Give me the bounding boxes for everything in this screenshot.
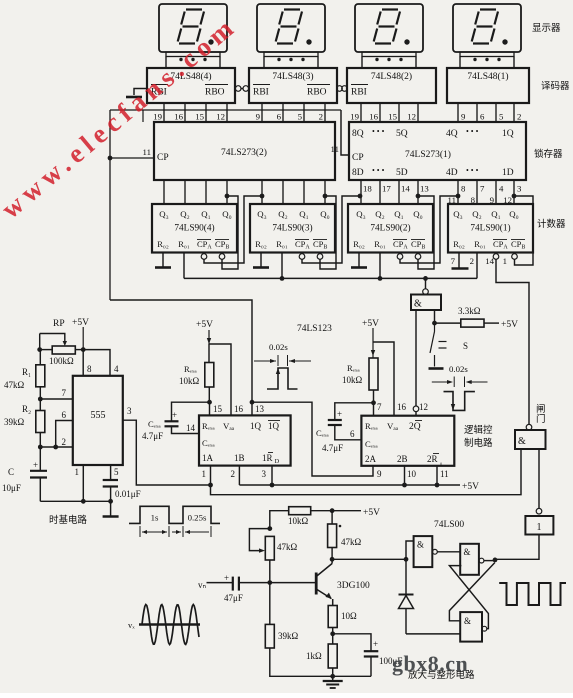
svg-text:Q₃: Q₃ bbox=[159, 209, 168, 219]
svg-text:74LS48(3): 74LS48(3) bbox=[272, 71, 313, 82]
svg-text:门: 门 bbox=[536, 413, 546, 425]
svg-text:制电路: 制电路 bbox=[464, 437, 493, 449]
svg-text:13: 13 bbox=[255, 404, 265, 414]
svg-text:RBO: RBO bbox=[307, 88, 327, 98]
svg-text:+5V: +5V bbox=[363, 508, 380, 518]
svg-text:12: 12 bbox=[407, 112, 416, 122]
ground pins 7,2 of 74LS90(1) bbox=[458, 253, 460, 269]
svg-text:• • •: • • • bbox=[372, 166, 385, 175]
wire CPA(3) from Q3(2) bbox=[302, 196, 360, 263]
svg-text:5: 5 bbox=[114, 467, 119, 477]
svg-text:9: 9 bbox=[256, 112, 261, 122]
svg-text:Q₃: Q₃ bbox=[453, 209, 462, 219]
resistor 10 ohm emitter bbox=[328, 606, 337, 628]
capacitor 0.01uF on pin5 bbox=[110, 465, 112, 479]
svg-text:Cₑₓₐ: Cₑₓₐ bbox=[316, 428, 329, 438]
svg-text:10kΩ: 10kΩ bbox=[342, 375, 363, 385]
wire +5V to 555 pins 8,4 bbox=[82, 350, 84, 376]
svg-text:74LS123: 74LS123 bbox=[297, 324, 332, 334]
wire 555 pin3 output bbox=[123, 420, 211, 485]
svg-text:39kΩ: 39kΩ bbox=[278, 631, 299, 641]
svg-text:10: 10 bbox=[407, 469, 417, 479]
node gate A input bbox=[404, 557, 409, 562]
svg-text:11: 11 bbox=[440, 469, 449, 479]
svg-text:5Q: 5Q bbox=[396, 129, 408, 139]
decoder 74LS48(4) bbox=[147, 68, 235, 103]
svg-text:+: + bbox=[224, 573, 229, 583]
display DS3 connector pins bbox=[264, 52, 318, 57]
CPB bubble 74LS90(3) bbox=[317, 254, 323, 260]
svg-text:R₁: R₁ bbox=[22, 367, 31, 377]
pin10 2B bbox=[404, 466, 406, 485]
svg-text:Q₃: Q₃ bbox=[257, 209, 266, 219]
NAND gate U-GATE (闸门) bbox=[515, 430, 546, 449]
svg-text:4.7μF: 4.7μF bbox=[142, 431, 163, 441]
svg-text:vₓ: vₓ bbox=[128, 620, 135, 630]
annotation square wave output bbox=[499, 583, 566, 605]
ground R02 of 74LS90(3) bbox=[260, 253, 262, 268]
svg-text:9: 9 bbox=[377, 469, 382, 479]
svg-text:10kΩ: 10kΩ bbox=[288, 516, 309, 526]
svg-text:R₀₁: R₀₁ bbox=[276, 239, 288, 249]
wire 555 pin1 down bbox=[82, 465, 84, 501]
svg-text:Cₑₓₐ: Cₑₓₐ bbox=[202, 438, 215, 448]
svg-text:1Q: 1Q bbox=[250, 421, 262, 431]
svg-text:Rₑₓₐ: Rₑₓₐ bbox=[184, 364, 197, 374]
svg-text:4D: 4D bbox=[446, 168, 458, 178]
svg-text:19: 19 bbox=[153, 112, 162, 122]
display DS2 (7-seg) bbox=[355, 4, 423, 52]
svg-text:1D: 1D bbox=[502, 168, 514, 178]
counter 74LS90(1) bbox=[448, 204, 533, 253]
svg-text:10kΩ: 10kΩ bbox=[179, 376, 200, 386]
CPA bubble 74LS90(3) bbox=[299, 254, 305, 260]
+5V amp bbox=[332, 510, 361, 512]
wire diode to gate C input bbox=[406, 633, 460, 635]
svg-text:1: 1 bbox=[503, 256, 507, 266]
svg-text:Q₃: Q₃ bbox=[356, 209, 365, 219]
display DS3 (7-seg) bbox=[257, 4, 325, 52]
display DS4 connector pins bbox=[166, 52, 220, 57]
svg-text:5: 5 bbox=[298, 112, 303, 122]
wire CP bus vertical left x=110 bbox=[109, 110, 111, 300]
svg-text:39kΩ: 39kΩ bbox=[4, 417, 25, 427]
counter 74LS90(4) bbox=[152, 204, 237, 253]
svg-text:Vₐₐ: Vₐₐ bbox=[387, 421, 399, 431]
svg-text:74LS48(1): 74LS48(1) bbox=[467, 71, 508, 82]
wire U-LC input pulled up bbox=[434, 310, 436, 323]
svg-text:锁存器: 锁存器 bbox=[534, 148, 563, 160]
monostable U2b 74LS123 second half bbox=[361, 416, 454, 466]
svg-text:7: 7 bbox=[480, 184, 485, 194]
svg-text:0.25s: 0.25s bbox=[188, 513, 207, 523]
svg-text:74LS90(1): 74LS90(1) bbox=[470, 223, 510, 234]
resistor 3.3k bbox=[435, 322, 461, 324]
svg-text:1: 1 bbox=[537, 522, 542, 533]
svg-text:19: 19 bbox=[350, 112, 359, 122]
pin2 1B to +5V rail bbox=[238, 466, 240, 485]
svg-text:7: 7 bbox=[377, 402, 382, 412]
CPA bubble 74LS90(2) bbox=[397, 254, 403, 260]
capacitor Cext2 4.7uF bbox=[335, 403, 374, 419]
svg-text:100kΩ: 100kΩ bbox=[49, 356, 74, 366]
svg-text:3: 3 bbox=[262, 469, 267, 479]
svg-text:1s: 1s bbox=[151, 513, 159, 523]
svg-text:Q₂: Q₂ bbox=[375, 209, 384, 219]
svg-text:&: & bbox=[464, 616, 471, 626]
svg-text:74LS273(2): 74LS273(2) bbox=[221, 147, 267, 158]
bubble output of U-GATE bbox=[526, 424, 532, 430]
diode feedback bbox=[405, 559, 407, 593]
CPB bubble 74LS90(1) pin1 bbox=[512, 254, 518, 260]
potentiometer RP 100k bbox=[52, 346, 75, 354]
svg-text:2: 2 bbox=[319, 112, 323, 122]
svg-text:显示器: 显示器 bbox=[532, 23, 561, 34]
svg-text:逻辑控: 逻辑控 bbox=[464, 424, 493, 436]
svg-text:R₀₂: R₀₂ bbox=[453, 239, 465, 249]
resistor R1 47k bbox=[39, 350, 41, 365]
wire CPB(3) from Q0(3) bbox=[320, 196, 336, 269]
counter 74LS90(2) bbox=[348, 204, 433, 253]
svg-text:Cₑₓₐ: Cₑₓₐ bbox=[365, 439, 378, 449]
svg-text:9: 9 bbox=[461, 112, 466, 122]
svg-text:Cₑₓₐ: Cₑₓₐ bbox=[148, 419, 161, 429]
svg-text:D: D bbox=[275, 458, 280, 465]
decoder 74LS48(2) bbox=[347, 68, 436, 103]
wire CPB(1) from Q0(1) bbox=[514, 196, 533, 265]
svg-text:Q₂: Q₂ bbox=[278, 209, 287, 219]
svg-text:gbx8.cn: gbx8.cn bbox=[392, 651, 468, 676]
svg-text:2Q: 2Q bbox=[409, 422, 421, 432]
resistor 39k bbox=[269, 583, 271, 625]
svg-text:10Ω: 10Ω bbox=[341, 611, 357, 621]
svg-text:CP: CP bbox=[157, 153, 169, 163]
svg-text:+: + bbox=[337, 409, 342, 419]
svg-text:+5V: +5V bbox=[196, 320, 213, 330]
svg-text:4.7μF: 4.7μF bbox=[322, 443, 343, 453]
emitter ground rail bbox=[270, 648, 371, 676]
svg-text:74LS48(2): 74LS48(2) bbox=[371, 71, 412, 82]
svg-text:2: 2 bbox=[231, 469, 236, 479]
svg-text:R₀₁: R₀₁ bbox=[178, 239, 190, 249]
wires 74LS48(4) outputs to 74LS273(2) pins 19 16 15 12 bbox=[142, 110, 144, 122]
wire R01(2) to reset rail bbox=[379, 253, 381, 279]
node R1/R2 junction pin7 bbox=[38, 397, 43, 402]
latch U-273-1 74LS273(1) bbox=[349, 122, 526, 180]
svg-text:0.02s: 0.02s bbox=[269, 342, 288, 352]
svg-text:2A: 2A bbox=[365, 454, 377, 464]
svg-text:8D: 8D bbox=[352, 168, 364, 178]
resistor R2 39k bbox=[36, 411, 45, 433]
pin11 2RD bbox=[436, 466, 438, 485]
svg-text:R₂: R₂ bbox=[22, 404, 31, 414]
wire R01(4) to reset rail bbox=[183, 253, 185, 279]
RBO-RBI link bubbles between 74LS48(4) and 74LS48(3) bbox=[235, 86, 241, 92]
svg-text:5: 5 bbox=[499, 112, 504, 122]
NAND gate B bbox=[460, 544, 479, 575]
bubble output of U-LC bbox=[423, 289, 429, 295]
svg-text:0.02s: 0.02s bbox=[449, 364, 468, 374]
svg-text:2R: 2R bbox=[427, 454, 438, 464]
svg-text:12: 12 bbox=[216, 112, 225, 122]
+5V rail under 123 bbox=[239, 484, 460, 486]
svg-text:Q₂: Q₂ bbox=[180, 209, 189, 219]
svg-text:2B: 2B bbox=[397, 454, 408, 464]
svg-text:Q₀: Q₀ bbox=[222, 209, 231, 219]
svg-text:12: 12 bbox=[419, 402, 428, 412]
svg-text:2: 2 bbox=[470, 256, 474, 266]
svg-text:74LS90(3): 74LS90(3) bbox=[272, 223, 312, 234]
svg-text:74LS273(1): 74LS273(1) bbox=[405, 149, 451, 160]
svg-text:16: 16 bbox=[174, 112, 183, 122]
svg-text:1R: 1R bbox=[262, 453, 273, 463]
ground R02 of 74LS90(4) bbox=[162, 253, 164, 268]
svg-text:1B: 1B bbox=[234, 453, 245, 463]
wire pin13 from CP bus bbox=[110, 300, 252, 415]
NAND gate C bbox=[460, 612, 482, 642]
svg-text:47kΩ: 47kΩ bbox=[4, 380, 25, 390]
svg-text:5D: 5D bbox=[396, 168, 408, 178]
svg-text:2: 2 bbox=[517, 112, 521, 122]
svg-text:译码器: 译码器 bbox=[541, 81, 570, 92]
wire base bbox=[270, 582, 316, 584]
svg-text:Q₀: Q₀ bbox=[413, 209, 422, 219]
svg-text:3: 3 bbox=[517, 184, 522, 194]
ground of switch S bbox=[429, 367, 444, 370]
svg-text:Q₀: Q₀ bbox=[509, 209, 518, 219]
wire +5V to Vcc pin16b bbox=[373, 342, 394, 416]
svg-text:R₀₁: R₀₁ bbox=[374, 239, 386, 249]
svg-text:4: 4 bbox=[499, 184, 504, 194]
svg-text:74LS90(2): 74LS90(2) bbox=[370, 223, 410, 234]
svg-text:555: 555 bbox=[91, 410, 106, 421]
svg-text:Q₁: Q₁ bbox=[201, 209, 210, 219]
svg-text:7: 7 bbox=[451, 256, 456, 266]
svg-text:15: 15 bbox=[213, 404, 223, 414]
svg-text:47kΩ: 47kΩ bbox=[277, 542, 298, 552]
svg-text:+5V: +5V bbox=[72, 318, 89, 328]
svg-text:11: 11 bbox=[143, 147, 151, 157]
timer U1 555 bbox=[73, 376, 123, 465]
wire U-GATE output (bubble top already connects to clock wire) bbox=[528, 423, 530, 426]
svg-text:1: 1 bbox=[202, 469, 207, 479]
svg-text:6: 6 bbox=[62, 410, 67, 420]
svg-text:闸: 闸 bbox=[536, 403, 546, 415]
svg-text:RP: RP bbox=[53, 319, 65, 329]
wire U-LC input from 2Q pin12 bbox=[415, 310, 417, 406]
svg-text:Rₑₓₐ: Rₑₓₐ bbox=[202, 421, 215, 431]
svg-text:&: & bbox=[417, 540, 424, 550]
svg-text:vₙ: vₙ bbox=[198, 580, 207, 590]
svg-text:+5V: +5V bbox=[462, 482, 479, 492]
cross-coupling wire: gate C output to gate B input bbox=[449, 566, 488, 629]
svg-text:16: 16 bbox=[369, 112, 378, 122]
counter 74LS90(3) bbox=[250, 204, 335, 253]
svg-text:47μF: 47μF bbox=[224, 593, 243, 603]
CPA bubble 74LS90(4) bbox=[201, 254, 207, 260]
decoder 74LS48(1) bbox=[447, 68, 529, 103]
svg-text:18: 18 bbox=[363, 184, 372, 194]
waveform 1s/0.25s bbox=[129, 506, 220, 523]
wire CPB(4) from Q0(4) bbox=[222, 196, 238, 269]
capacitor 100uF bypass bbox=[333, 634, 371, 651]
svg-text:3.3kΩ: 3.3kΩ bbox=[458, 306, 481, 316]
svg-text:10μF: 10μF bbox=[2, 483, 21, 493]
svg-text:1Q: 1Q bbox=[502, 129, 514, 139]
svg-text:7: 7 bbox=[62, 388, 67, 398]
wires 74LS273(2) D inputs to counter Q outputs bbox=[163, 180, 165, 204]
wire gate A out to gate B bbox=[437, 551, 460, 553]
svg-text:R₀₂: R₀₂ bbox=[157, 239, 169, 249]
svg-text:17: 17 bbox=[382, 184, 391, 194]
wires 74LS273(1) D inputs pins 18 17 14 13 / 8 7 4 3 bbox=[360, 180, 362, 204]
svg-text:6: 6 bbox=[480, 112, 485, 122]
svg-text:S: S bbox=[463, 341, 468, 351]
svg-text:+: + bbox=[172, 410, 177, 420]
wire U-GATE input2 down to 1-buffer bbox=[538, 449, 540, 509]
svg-text:8: 8 bbox=[461, 184, 466, 194]
monostable U2a 74LS123 first half bbox=[199, 415, 291, 465]
node Rext1/Cext1 pin15 bbox=[207, 400, 212, 405]
svg-text:6: 6 bbox=[277, 112, 282, 122]
ground amp bbox=[323, 680, 343, 682]
decoder 74LS48(3) bbox=[249, 68, 337, 103]
display DS4 (7-seg) bbox=[159, 4, 227, 52]
svg-text:1: 1 bbox=[75, 467, 80, 477]
wire CPA(1) clock from gate bbox=[496, 259, 529, 424]
wire RBI of 74LS48(4) to low level bbox=[134, 89, 147, 96]
wires 74LS48(1) outputs to 74LS273(1) pins 9 6 5 2 bbox=[457, 103, 459, 122]
node shaper output bbox=[484, 560, 495, 562]
svg-text:R₀₂: R₀₂ bbox=[353, 239, 365, 249]
svg-text:Rₑₓₐ: Rₑₓₐ bbox=[347, 363, 360, 373]
wire 555 ground rail bbox=[40, 500, 110, 502]
svg-text:Q₀: Q₀ bbox=[320, 209, 329, 219]
ground 555 bbox=[110, 501, 112, 516]
RBO-RBI link bubbles between 74LS48(3) and 74LS48(2) bbox=[337, 86, 343, 92]
wire CP bus horizontal y=110 bbox=[110, 109, 341, 111]
svg-text:&: & bbox=[518, 436, 526, 447]
RP wiper bbox=[40, 334, 65, 342]
wires 74LS48(2) outputs to 74LS273(1) pins 19 16 15 12 bbox=[360, 103, 362, 122]
display DS2 connector pins bbox=[362, 52, 416, 57]
svg-text:• • •: • • • bbox=[466, 166, 479, 175]
svg-text:+: + bbox=[373, 639, 378, 649]
svg-text:4: 4 bbox=[114, 364, 119, 374]
node CP junction to 74LS273(2) bbox=[108, 156, 113, 161]
wire R01(3) to reset rail bbox=[281, 253, 283, 279]
svg-text:1A: 1A bbox=[202, 453, 214, 463]
svg-text:14: 14 bbox=[401, 184, 410, 194]
wire +5V to Vcc pin16 bbox=[209, 344, 231, 415]
svg-text:时基电路: 时基电路 bbox=[49, 514, 88, 526]
capacitor Cext1 4.7uF bbox=[172, 402, 210, 420]
resistor 10k top bbox=[270, 511, 289, 529]
pin1 1A from 555 bbox=[210, 466, 212, 485]
svg-text:1kΩ: 1kΩ bbox=[306, 651, 322, 661]
svg-text:计数器: 计数器 bbox=[537, 218, 566, 230]
svg-text:16: 16 bbox=[397, 402, 407, 412]
svg-text:15: 15 bbox=[195, 112, 204, 122]
svg-text:+5V: +5V bbox=[362, 319, 379, 329]
svg-text:2: 2 bbox=[62, 437, 67, 447]
svg-text:R₀₁: R₀₁ bbox=[474, 239, 486, 249]
svg-text:74LS00: 74LS00 bbox=[434, 520, 464, 530]
display DS1 (7-seg) bbox=[453, 4, 521, 52]
wire 1Q to 2A bbox=[252, 402, 373, 476]
resistor Rext2 10k bbox=[369, 358, 378, 390]
svg-text:16: 16 bbox=[234, 404, 244, 414]
CPB bubble 74LS90(2) bbox=[415, 254, 421, 260]
svg-text:CP: CP bbox=[352, 153, 364, 163]
svg-text:Q₁: Q₁ bbox=[299, 209, 308, 219]
display DS1 connector pins bbox=[460, 52, 514, 57]
svg-text:C: C bbox=[8, 467, 14, 477]
CPA bubble 74LS90(1) pin14 bbox=[493, 254, 499, 260]
wires 74LS48(3) outputs to 74LS273(2) pins 9 6 5 2 bbox=[261, 103, 263, 122]
wire CPB(2) from Q0(2) bbox=[418, 196, 434, 269]
svg-text:6: 6 bbox=[350, 429, 355, 439]
wire pin2 R01(1) to reset rail bbox=[476, 253, 478, 279]
wire CPA(4) from Q3(3) bbox=[204, 196, 262, 263]
svg-text:13: 13 bbox=[420, 184, 429, 194]
svg-text:1Q: 1Q bbox=[268, 421, 280, 431]
svg-text:• • •: • • • bbox=[466, 127, 479, 136]
svg-text:Q₂: Q₂ bbox=[472, 209, 481, 219]
svg-text:RBI: RBI bbox=[351, 88, 367, 98]
NAND gate U-LC (logic control) bbox=[411, 295, 441, 311]
svg-text:3: 3 bbox=[127, 406, 132, 416]
capacitor C 10uF bbox=[39, 447, 41, 470]
resistor Rext1 10k bbox=[208, 344, 210, 363]
ground R02 of 74LS90(2) bbox=[358, 253, 360, 268]
cross-coupling wire: output node to gate C input bbox=[449, 563, 495, 621]
pin3 1RD bbox=[271, 466, 273, 485]
wire U-1 output to shaper bbox=[495, 535, 539, 560]
wire trigger to gate input rail bbox=[211, 449, 522, 495]
collector output wire bbox=[332, 558, 406, 560]
node Rext2/Cext2 pin7 bbox=[371, 400, 376, 405]
svg-text:14: 14 bbox=[186, 423, 196, 433]
svg-text:Vₐₐ: Vₐₐ bbox=[223, 421, 235, 431]
resistor 1k bbox=[332, 634, 334, 644]
svg-text:Rₑₓₐ: Rₑₓₐ bbox=[365, 421, 378, 431]
svg-text:&: & bbox=[464, 547, 471, 557]
svg-text:₀: ₀ bbox=[440, 459, 442, 466]
resistor 47k feedback bbox=[267, 526, 272, 531]
switch S bbox=[434, 323, 436, 331]
svg-text:8: 8 bbox=[87, 364, 92, 374]
svg-text:4Q: 4Q bbox=[446, 129, 458, 139]
transistor Q1 3DG100 bbox=[315, 573, 318, 595]
wire CPA(2) from Q3(1) bbox=[400, 196, 458, 263]
wire CP drop to 74LS273(1) pin 11 bbox=[341, 110, 349, 155]
svg-text:&: & bbox=[414, 299, 422, 310]
svg-text:R₀₂: R₀₂ bbox=[255, 239, 267, 249]
svg-text:Q₁: Q₁ bbox=[491, 209, 500, 219]
svg-text:RBI: RBI bbox=[253, 88, 269, 98]
latch U-273-2 74LS273(2) bbox=[154, 122, 335, 180]
svg-text:8Q: 8Q bbox=[352, 129, 364, 139]
svg-text:47kΩ: 47kΩ bbox=[341, 537, 362, 547]
resistor 47k collector bbox=[331, 511, 333, 524]
NAND gate A bbox=[414, 536, 433, 567]
svg-text:3DG100: 3DG100 bbox=[337, 581, 370, 591]
svg-text:• • •: • • • bbox=[372, 127, 385, 136]
buffer U-1 bubble bbox=[536, 508, 542, 514]
pin12 2Q with bubble bbox=[413, 406, 419, 412]
svg-text:74LS90(4): 74LS90(4) bbox=[174, 223, 214, 234]
